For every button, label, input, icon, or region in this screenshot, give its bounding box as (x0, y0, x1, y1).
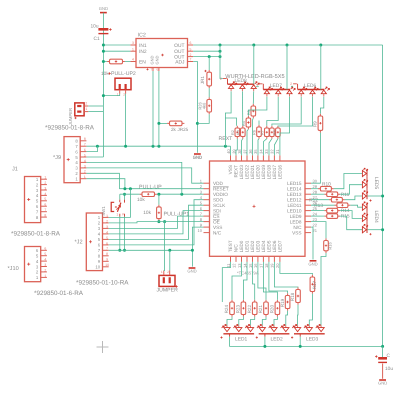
wire R18 to LED3 a (297, 305, 300, 326)
svg-text:35: 35 (253, 149, 258, 154)
svg-text:IN2: IN2 (139, 49, 147, 55)
wire pin16 to R21 (258, 262, 266, 300)
wire OUT3 row (193, 56, 220, 58)
wire pin20 to R17 (280, 262, 313, 275)
svg-text:39: 39 (231, 149, 236, 154)
svg-text:2: 2 (44, 268, 46, 272)
svg-text:LED17: LED17 (272, 165, 277, 180)
ground GND bottom right (379, 379, 386, 381)
svg-text:32: 32 (270, 149, 275, 154)
svg-text:5: 5 (190, 47, 192, 51)
wire LED6 pin2 stub (291, 85, 293, 87)
svg-text:R2: R2 (231, 130, 235, 135)
wire PULL-UP1 top (158, 194, 160, 205)
svg-text:7: 7 (106, 247, 108, 251)
wire PULL-UP2 pin2 down to J9 pin7 net (125, 94, 127, 146)
wire PULL-UP2 pin1 to main vertical (103, 94, 119, 96)
svg-text:LED4: LED4 (261, 240, 266, 252)
svg-text:SW1: SW1 (101, 206, 106, 216)
svg-text:1: 1 (132, 47, 134, 51)
wire LED4 output to rail (368, 229, 383, 231)
svg-text:C: C (387, 353, 391, 359)
wire R26 bottom to JR25 net (197, 114, 209, 123)
wire R21 to LED2 a (262, 317, 266, 326)
wire IC2 bottom pin6 down to REXT net (158, 71, 160, 146)
svg-text:2: 2 (106, 219, 108, 223)
svg-text:JUMPER: JUMPER (157, 288, 179, 294)
resistor R9 (319, 114, 321, 133)
resistor R19 (287, 293, 289, 310)
svg-text:4: 4 (44, 192, 46, 196)
svg-text:LED8: LED8 (290, 219, 302, 224)
capacitor C2 (375, 346, 393, 378)
svg-text:LED11: LED11 (288, 203, 302, 208)
svg-text:CS: CS (213, 214, 220, 219)
svg-text:PULL-UP2: PULL-UP2 (111, 71, 136, 77)
svg-text:3: 3 (44, 186, 46, 190)
LED module LED5 (362, 168, 378, 202)
svg-text:3: 3 (106, 225, 108, 229)
svg-text:PULL-UP1: PULL-UP1 (164, 212, 190, 218)
svg-text:1: 1 (106, 214, 108, 218)
IC1 bottom pins 11-20 (226, 256, 280, 268)
svg-text:LED6: LED6 (304, 83, 317, 89)
wire LED6 cathode2 to R25 (278, 97, 313, 126)
wire IN1 from main vertical (103, 44, 130, 46)
svg-text:7: 7 (44, 208, 46, 212)
svg-text:17: 17 (259, 263, 264, 268)
wire EN row (103, 61, 107, 63)
svg-text:C1: C1 (94, 36, 100, 42)
svg-text:1: 1 (44, 176, 46, 180)
wire top bus drop to LED6 bar (320, 45, 322, 90)
svg-text:*929850-01-8-RA: *929850-01-8-RA (45, 125, 95, 132)
fiducial cross (97, 341, 109, 353)
wire REXT horizontal jog (225, 118, 236, 126)
resistor R6 (258, 125, 260, 139)
LED module LED2 (256, 324, 290, 342)
svg-text:R26: R26 (198, 102, 203, 110)
svg-text:JUMPER: JUMPER (68, 108, 73, 125)
microcontroller IC1 (LED driver) (210, 161, 306, 256)
resistor R23 (242, 300, 244, 317)
LED module LED6 (290, 82, 329, 96)
svg-text:LED23: LED23 (239, 165, 244, 180)
wire J9 pin1 to RESET net (86, 179, 125, 189)
svg-text:10k: 10k (137, 197, 145, 203)
ground GND center bottom (189, 267, 196, 269)
svg-text:GND: GND (155, 55, 160, 64)
wire pin11 hook (222, 262, 230, 302)
svg-text:10u: 10u (385, 366, 393, 372)
wire R17 to LED3 b (309, 294, 312, 326)
svg-text:10: 10 (198, 228, 203, 233)
switch SW1 (101, 200, 124, 217)
wire IC2 bottom pin7 down to REXT net (152, 71, 154, 146)
wire J2 pin3 to CS (109, 216, 204, 228)
wire JUMPER3 pin2 from J2 pin7 net (169, 250, 171, 270)
LED module LED4 (362, 202, 378, 236)
svg-text:SDO: SDO (213, 197, 224, 202)
svg-text:4: 4 (44, 258, 46, 262)
svg-text:OE: OE (213, 219, 220, 224)
wire LED3 tap to bus (299, 337, 301, 347)
wire VSS pin9 to GND (192, 227, 203, 267)
capacitor C1 (91, 24, 112, 43)
wire resistor bottoms to IC1 top pins (236, 139, 237, 156)
svg-text:5: 5 (84, 153, 86, 157)
connector J1 (25, 177, 41, 223)
wire R14 to LED4 b (340, 211, 362, 219)
wire R6 feed (258, 121, 260, 125)
svg-text:LED20: LED20 (256, 165, 261, 180)
svg-text:GND: GND (378, 381, 387, 386)
svg-text:*929850-01-6-RA: *929850-01-6-RA (34, 290, 84, 297)
svg-text:1: 1 (84, 175, 86, 179)
IC1 top pins 40-31 (226, 149, 280, 161)
svg-text:1: 1 (44, 274, 46, 278)
svg-text:LED15: LED15 (287, 181, 302, 186)
svg-text:7: 7 (84, 143, 86, 147)
resistor R20 (276, 300, 278, 317)
svg-text:R13: R13 (314, 203, 323, 209)
svg-text:6: 6 (84, 148, 86, 152)
svg-text:LED5: LED5 (267, 240, 272, 252)
wire J9 pin5 stub from main vertical (86, 156, 103, 158)
wire R15 to LED4 c (340, 216, 362, 230)
svg-text:LED3: LED3 (256, 240, 261, 252)
wire JR25 left to IC2 pin6 net (159, 122, 167, 124)
resistor R12 (329, 199, 345, 201)
resistor R15 (324, 215, 340, 217)
wire PULL-UP1 bottom to OE row (158, 220, 160, 223)
resistor R16 (325, 238, 327, 253)
svg-text:15: 15 (248, 263, 253, 268)
svg-text:*J2: *J2 (75, 240, 83, 246)
wire J9 pin6 to pin7 net (86, 146, 97, 151)
svg-text:2: 2 (256, 82, 258, 86)
resistor R26 (208, 97, 210, 114)
IC1 right pins 30-21 (305, 179, 318, 233)
resistor R13 (335, 204, 351, 206)
svg-text:6: 6 (190, 41, 192, 45)
wire JUMPER3 pin1 from OE net (163, 222, 166, 271)
svg-text:13: 13 (237, 263, 242, 268)
wire J2 pin6 to SDO (109, 200, 204, 245)
svg-text:SCLK: SCLK (213, 203, 226, 208)
wire SW1 poles down to J2 pin7 net (119, 217, 121, 251)
wire pin24 to R15 (311, 215, 324, 217)
svg-text:*J9: *J9 (53, 155, 61, 161)
svg-text:GND: GND (308, 261, 317, 266)
svg-text:10k: 10k (143, 210, 151, 216)
svg-text:R20: R20 (270, 305, 275, 314)
resistor R2 (236, 126, 238, 139)
svg-text:10u: 10u (91, 24, 99, 30)
wire R16 to LED3 c (321, 253, 326, 325)
svg-text:18: 18 (264, 263, 269, 268)
svg-text:1: 1 (161, 270, 163, 274)
wire pin17 to R20 (263, 262, 277, 300)
svg-text:2: 2 (190, 53, 192, 57)
IC2 bottom pins 7 6 (146, 68, 159, 72)
wire LED6 cathode1 to R8 (272, 97, 301, 126)
svg-text:JR25: JR25 (178, 127, 189, 132)
svg-text:4: 4 (106, 230, 108, 234)
resistor R24 (231, 300, 233, 317)
wire SW1 top pins to pull-up net (119, 194, 121, 199)
svg-text:6: 6 (44, 203, 46, 207)
svg-text:LED19: LED19 (261, 165, 266, 180)
svg-text:2: 2 (85, 102, 87, 106)
svg-text:REXT: REXT (234, 165, 239, 178)
resistor R11 (324, 193, 340, 195)
svg-text:R12: R12 (309, 197, 318, 203)
svg-text:5: 5 (44, 197, 46, 201)
wire J2 pin2 to OE row (109, 222, 204, 223)
svg-text:6: 6 (44, 247, 46, 251)
wire pin27 to R12 (311, 199, 329, 201)
resistor R28 pull-up 10k (140, 193, 157, 195)
svg-text:LED22: LED22 (245, 165, 250, 180)
svg-text:LED9: LED9 (290, 214, 302, 219)
svg-text:1: 1 (85, 107, 87, 111)
resistor R22 (254, 300, 256, 317)
wire pin18 to R19 (269, 262, 288, 293)
svg-text:37: 37 (242, 149, 247, 154)
svg-text:LED3: LED3 (306, 336, 319, 342)
wire R23 to LED1 b (239, 317, 244, 326)
wire pin30 to R9 (311, 133, 320, 184)
svg-text:R18: R18 (290, 292, 295, 301)
wire pin28 to R11 (311, 193, 324, 195)
wire J2 pin1 to RESET net (109, 189, 131, 218)
wire pin15 to R22 (253, 262, 255, 300)
svg-text:ADJ: ADJ (175, 59, 185, 65)
ground GND for ADJ (194, 153, 201, 155)
wire JR1 to R26 (208, 88, 210, 97)
connector J10 (25, 247, 41, 282)
IC1 left pins 1-10 (198, 179, 210, 233)
svg-text:OUT: OUT (174, 43, 184, 49)
svg-text:N/C: N/C (293, 225, 302, 230)
svg-text:LED2: LED2 (271, 336, 284, 342)
wire pin13 to R24 (232, 262, 242, 300)
svg-text:RESET: RESET (213, 186, 229, 191)
svg-text:R9: R9 (312, 121, 317, 127)
svg-text:4: 4 (132, 58, 134, 62)
svg-text:R17: R17 (312, 281, 317, 290)
wire top bus drop to LED8 bar (253, 45, 255, 84)
svg-text:2: 2 (290, 82, 292, 86)
svg-text:8: 8 (84, 137, 86, 141)
svg-text:6: 6 (156, 68, 158, 72)
resistor R4 (247, 116, 249, 129)
svg-text:2: 2 (123, 92, 125, 96)
svg-text:J1: J1 (12, 167, 18, 173)
resistor PULL-UP1 (158, 205, 160, 221)
svg-text:34: 34 (259, 149, 264, 154)
svg-text:LED13: LED13 (287, 192, 302, 197)
wire LED8 cathode1 to REXT vertical (225, 91, 231, 146)
wire GND to C1 to J9 pin 5 (main vertical) (102, 13, 104, 157)
svg-text:JR1: JR1 (200, 76, 205, 85)
connector J9 (64, 137, 80, 183)
svg-text:TEST: TEST (228, 240, 233, 252)
wire ADJ down to GND (193, 62, 197, 153)
svg-text:R21: R21 (258, 305, 263, 314)
svg-text:VSS: VSS (213, 225, 222, 230)
svg-text:VDD: VDD (213, 181, 224, 186)
svg-text:3: 3 (84, 164, 86, 168)
svg-text:40: 40 (226, 149, 231, 154)
svg-text:LED16: LED16 (278, 165, 283, 180)
wire pin19 to R18 (274, 262, 298, 287)
wire LED7 pin2 stub to bus tie (256, 85, 259, 87)
wire LED6 cathode3 to R9 (320, 97, 323, 114)
svg-text:LED4: LED4 (373, 211, 379, 224)
wire J2 pin5 to SCLK (109, 205, 204, 239)
LED module LED8 (220, 77, 259, 91)
svg-text:VSS: VSS (292, 230, 301, 235)
svg-text:R6: R6 (253, 130, 257, 135)
jumper JP1 (68, 102, 89, 126)
svg-text:R22: R22 (247, 305, 252, 314)
svg-text:2: 2 (167, 270, 169, 274)
svg-text:LED0: LED0 (239, 240, 244, 252)
svg-text:R19: R19 (280, 298, 285, 307)
svg-text:14: 14 (242, 263, 247, 268)
wire OUT1 top bus to right rail (193, 44, 383, 46)
svg-text:LED7: LED7 (278, 240, 283, 252)
wire JP1 pin1 to main vertical (88, 111, 103, 113)
svg-text:R14: R14 (341, 208, 350, 214)
svg-text:R11: R11 (341, 192, 350, 198)
wire R12 to LED5 c (345, 196, 363, 200)
resistor R3 (242, 126, 244, 139)
resistor R17 (311, 275, 313, 294)
svg-text:33: 33 (264, 149, 269, 154)
resistor JR1 (208, 70, 210, 88)
svg-text:9: 9 (106, 258, 108, 262)
resistor R27 on EN row (107, 61, 125, 63)
wire OUT2 row (193, 50, 220, 52)
svg-text:LED12: LED12 (287, 197, 302, 202)
svg-text:REXT: REXT (219, 136, 234, 142)
svg-text:LED10: LED10 (287, 208, 302, 213)
svg-text:4: 4 (84, 159, 86, 163)
svg-text:SDI: SDI (213, 208, 221, 213)
wire LED8 cathode3 to R5 (252, 91, 254, 103)
svg-text:VDDIO: VDDIO (213, 192, 228, 197)
svg-text:GND: GND (187, 269, 196, 274)
svg-text:36: 36 (248, 149, 253, 154)
svg-text:LED18: LED18 (267, 165, 272, 180)
LED module LED1 (220, 324, 254, 342)
svg-text:N/C: N/C (213, 230, 222, 235)
wire LED8 cathode2 to R3 (241, 91, 243, 125)
resistor R21 (265, 300, 267, 317)
wire right rail vertical (382, 45, 384, 346)
svg-text:VSS: VSS (228, 165, 233, 174)
wire R24 to LED1 a (227, 317, 232, 326)
jumper PULL-UP2 (101, 71, 136, 96)
svg-text:LED14: LED14 (287, 186, 302, 191)
svg-text:EN: EN (139, 59, 146, 65)
svg-text:7: 7 (151, 68, 153, 72)
svg-text:IC2: IC2 (138, 33, 146, 39)
wire IN2 from main vertical (103, 50, 130, 52)
wire R11 to LED5 b (340, 185, 362, 195)
svg-text:OUT: OUT (174, 49, 184, 55)
wire J9 pin7 REXT long net (86, 145, 230, 147)
wire R20 to LED2 b (274, 317, 277, 326)
wire J2 pin7 row to GND drop (109, 249, 193, 251)
svg-text:LED1: LED1 (235, 336, 248, 342)
power input GND symbol (99, 6, 108, 13)
svg-text:2: 2 (44, 181, 46, 185)
wire RESET row to IC1 pin2 (119, 188, 203, 190)
svg-text:10k: 10k (101, 71, 109, 77)
svg-text:10: 10 (105, 263, 109, 267)
wire J9 pin4 to VDDIO via vertical (86, 162, 181, 194)
wire LED7 cathode1 to R4 (248, 97, 267, 116)
svg-text:GND: GND (193, 155, 202, 160)
connector J2 (86, 213, 102, 271)
svg-text:2k: 2k (171, 127, 177, 132)
wire JP1 pin2 to main vertical (88, 105, 103, 107)
svg-text:3: 3 (44, 263, 46, 267)
svg-text:6: 6 (106, 241, 108, 245)
wire OUT tie vertical to LED8 anode (220, 45, 224, 79)
wire pin14 to R23 (243, 262, 247, 300)
svg-text:3: 3 (132, 41, 134, 45)
wire bottom common bus (230, 337, 383, 347)
wire OUT3 to JR1 (208, 57, 210, 70)
op-amp IC2 (regulator box) (136, 33, 188, 68)
wire J9 pin3 to VDD pin1 (86, 168, 203, 183)
resistor R5 (252, 104, 254, 118)
wire R19 to LED2 c (286, 311, 288, 326)
resistor JR25 (167, 122, 184, 124)
svg-text:P: P (122, 213, 124, 217)
svg-text:R7: R7 (260, 130, 264, 135)
svg-text:5: 5 (106, 236, 108, 240)
IC2 left pins (130, 41, 136, 62)
svg-text:31: 31 (275, 149, 280, 154)
wire pin25 to R14 (311, 210, 324, 212)
wire pin23 to R16 (311, 222, 326, 239)
svg-text:2: 2 (84, 170, 86, 174)
svg-text:PULL-UP: PULL-UP (139, 185, 162, 191)
resistor R14 (324, 210, 340, 212)
svg-text:R24: R24 (224, 305, 229, 314)
ground GND below pin22 (310, 260, 317, 262)
svg-text:WURTH-LED-RGB-5X5: WURTH-LED-RGB-5X5 (225, 74, 284, 80)
wire J9 pin2 to RESET net (86, 173, 119, 188)
svg-text:1: 1 (116, 213, 118, 217)
LED module LED3 (291, 324, 325, 342)
svg-text:R16: R16 (328, 242, 333, 250)
wire top bus drop to LED7 bar (286, 45, 288, 90)
svg-text:LED6: LED6 (272, 240, 277, 252)
svg-text:LED7: LED7 (270, 83, 283, 89)
wire pin26 to R13 (311, 204, 335, 206)
svg-text:12: 12 (231, 263, 236, 268)
svg-text:*929850-01-8-RA: *929850-01-8-RA (11, 231, 61, 238)
svg-text:GND: GND (99, 6, 108, 11)
svg-text:2: 2 (220, 77, 222, 81)
